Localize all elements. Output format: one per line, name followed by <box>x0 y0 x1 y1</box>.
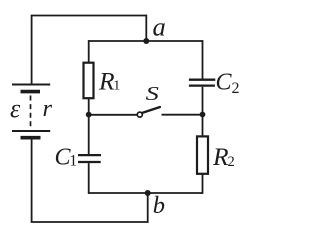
wire: outer left bottom (battery bottom lead) <box>31 139 33 222</box>
svg-text:2: 2 <box>232 80 240 97</box>
svg-text:b: b <box>153 192 165 219</box>
svg-text:1: 1 <box>113 79 120 94</box>
switch S pivot circle <box>137 112 142 117</box>
svg-text:S: S <box>146 84 160 105</box>
svg-text:1: 1 <box>69 153 77 170</box>
wire: outer left top (battery top lead) <box>31 16 33 84</box>
wire: inner bottom rail b-row <box>89 192 203 194</box>
wire: left branch top (rail to R1) <box>88 40 90 63</box>
wire: outer top from battery to node a drop <box>31 15 147 17</box>
wire: right branch R2 to bottom rail <box>202 174 204 194</box>
svg-text:a: a <box>153 12 166 42</box>
svg-text:R: R <box>212 142 229 171</box>
capacitor C1 plates <box>78 154 101 156</box>
right mid junction dot <box>200 112 206 118</box>
node a junction dot <box>143 38 149 44</box>
wire: inner top rail a-row <box>89 40 203 42</box>
resistor R2 box <box>197 136 208 173</box>
battery cell 1 short thick plate <box>21 90 41 94</box>
svg-text:2: 2 <box>228 154 235 170</box>
wire: left branch C1 to bottom rail <box>88 163 90 194</box>
battery cell 2 short thick plate <box>21 136 41 140</box>
svg-text:r: r <box>43 95 53 122</box>
wire: left branch R1 to mid junction <box>88 98 90 114</box>
svg-text:ε: ε <box>10 94 21 123</box>
wire: right branch mid junction to R2 <box>202 115 204 137</box>
switch S blade <box>142 107 160 113</box>
wire: vertical drop into node a <box>145 15 147 41</box>
resistor R1 box <box>84 63 94 98</box>
battery cell 1 long plate <box>12 84 50 86</box>
battery internal dashed wire <box>30 96 32 129</box>
battery cell 2 long plate <box>12 130 50 132</box>
svg-text:C: C <box>216 69 233 95</box>
wire: right branch C2 to mid junction <box>202 87 204 115</box>
wire: left branch mid junction to C1 <box>88 115 90 154</box>
wire: switch lead from left junction to pivot <box>89 114 138 116</box>
wire: right branch top (rail to C2) <box>202 40 204 79</box>
wire: outer bottom from battery to node b riser <box>31 221 148 223</box>
wire: riser from outer bottom up to node b <box>147 193 149 223</box>
left mid junction dot <box>86 112 92 118</box>
capacitor C2 plates <box>189 79 215 81</box>
wire: switch lead from blade side to right junction <box>162 114 203 116</box>
node b junction dot <box>145 190 151 196</box>
